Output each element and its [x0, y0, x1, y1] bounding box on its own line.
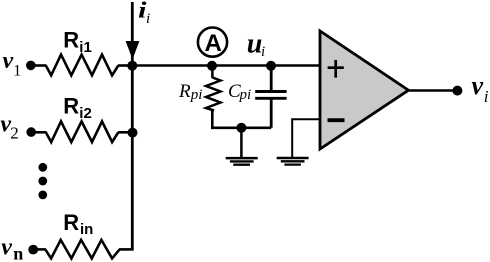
op-amp U1	[320, 31, 409, 149]
current arrow i_i head	[126, 41, 140, 60]
junction ground node	[236, 123, 246, 133]
wire: Ri1 to bus	[118, 64, 132, 67]
resistor Rin	[45, 240, 119, 259]
label i_i	[138, 0, 150, 27]
svg-text:R: R	[63, 94, 79, 119]
label Rpi	[178, 81, 202, 103]
svg-text:v: v	[472, 71, 484, 100]
svg-text:i: i	[261, 44, 265, 60]
resistor Ri2	[46, 121, 119, 142]
svg-text:i: i	[146, 11, 150, 27]
label v1	[3, 48, 22, 79]
svg-text:R: R	[63, 210, 79, 235]
junction node A on wire	[207, 61, 217, 71]
label vi	[472, 71, 489, 106]
label vn	[1, 234, 23, 262]
wire: Ri2 to bus	[118, 131, 132, 134]
wire: v2 lead	[31, 131, 46, 134]
svg-text:in: in	[80, 221, 93, 238]
wire: output	[409, 89, 454, 91]
svg-text:i2: i2	[79, 105, 92, 122]
wire: Rpi top lead	[211, 66, 214, 79]
label ui	[247, 29, 265, 61]
wire: ground stub 1	[240, 128, 243, 157]
wire: Cpi top lead	[270, 66, 273, 92]
svg-text:pi: pi	[239, 87, 252, 103]
svg-text:v: v	[1, 234, 12, 260]
label Rin	[63, 210, 93, 238]
node A circle	[198, 27, 227, 56]
ellipsis dots	[38, 163, 47, 199]
resistor Rpi	[206, 78, 221, 111]
label Cpi	[228, 81, 251, 103]
wire: inverting input to ground	[292, 119, 320, 157]
resistor Ri1	[46, 55, 119, 76]
label Ri2	[63, 94, 92, 123]
svg-text:A: A	[205, 30, 222, 57]
wire: Cpi bottom lead	[270, 98, 273, 128]
ground 1	[226, 158, 258, 165]
terminal vi	[452, 86, 462, 96]
svg-text:1: 1	[13, 62, 21, 79]
terminal vn	[28, 245, 38, 255]
svg-text:n: n	[13, 244, 23, 262]
svg-text:R: R	[178, 81, 191, 102]
svg-text:pi: pi	[190, 87, 203, 103]
svg-text:v: v	[3, 48, 14, 74]
label v2	[0, 111, 18, 142]
label Ri1	[63, 27, 92, 56]
terminal v1	[26, 61, 36, 71]
wire: main horizontal to op-amp + input	[132, 64, 320, 67]
wire: v1 lead	[31, 64, 47, 67]
svg-text:i: i	[484, 87, 489, 106]
svg-text:R: R	[63, 27, 79, 52]
wire: Rin to bus corner	[119, 248, 134, 251]
wire: Rpi bottom lead	[212, 110, 271, 128]
terminal v2	[26, 127, 36, 137]
wire: vn lead	[33, 248, 46, 251]
junction node 2	[128, 128, 138, 138]
capacitor Cpi	[255, 92, 286, 99]
wire: top current input vertical	[131, 2, 134, 66]
svg-text:2: 2	[10, 124, 19, 143]
svg-text:i1: i1	[79, 39, 92, 56]
wire: vertical summing bus	[131, 66, 134, 250]
ground 2	[277, 158, 309, 165]
junction Cpi top on wire	[266, 61, 276, 71]
junction node 1	[127, 61, 137, 71]
